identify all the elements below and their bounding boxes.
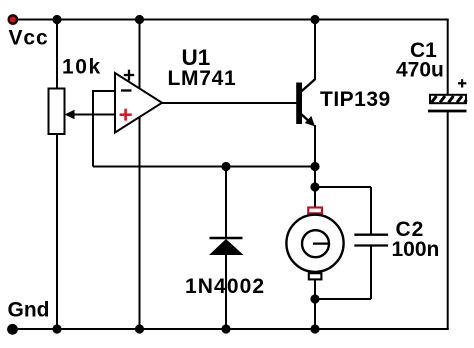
junction dot emitter feedback node [310, 162, 319, 171]
wire bottom rail Gnd [13, 328, 449, 330]
op-amp inverting input minus marker [121, 89, 132, 91]
junction dot bottom rail pot [52, 324, 61, 333]
transistor emitter diagonal with arrow [300, 113, 315, 126]
wire op-amp output to base [162, 102, 297, 104]
motor M1 body outer circle [286, 215, 343, 272]
wire top rail Vcc [13, 19, 449, 21]
potentiometer wiper arrow [65, 110, 116, 119]
capacitor C2 bottom plate [354, 244, 388, 246]
transistor collector diagonal [300, 80, 315, 93]
junction dot C2 top node [310, 182, 319, 191]
wire op-amp V+ supply leg [139, 20, 141, 90]
motor M1 inner circle [302, 230, 329, 257]
svg-text:470u: 470u [396, 59, 444, 82]
wire C2 lower vertical [370, 246, 372, 299]
junction dot top rail pot [52, 15, 61, 24]
op-amp V+ plus marker [124, 70, 134, 81]
capacitor C1 polarity plus [458, 79, 466, 87]
wire right edge lower (C1 to bottom rail) [447, 111, 449, 329]
op-amp non-inverting input red plus marker [120, 109, 132, 121]
capacitor C1 hatched positive plate [430, 95, 467, 103]
wire feedback vertical [92, 90, 94, 167]
motor M1 top terminal (red) [308, 208, 322, 214]
node Vcc terminal (red dot) [9, 15, 17, 23]
svg-text:Vcc: Vcc [9, 27, 49, 50]
node Gnd terminal (black dot) [7, 324, 18, 335]
wire right edge upper (top rail to C1) [447, 20, 449, 97]
junction dot bottom rail diode [221, 324, 230, 333]
wire feedback horizontal to emitter node [93, 166, 315, 168]
svg-text:TIP139: TIP139 [320, 88, 391, 111]
wire pot top leg [56, 20, 58, 90]
wire C2 upper vertical [370, 187, 372, 234]
capacitor C2 top plate [354, 234, 388, 236]
wire collector vertical [314, 20, 316, 81]
resistor 10k potentiometer body [49, 89, 65, 135]
wire emitter vertical to motor [314, 125, 316, 208]
wire inverting input stub [93, 90, 115, 92]
transistor Q1 base bar [296, 83, 302, 125]
junction dot top rail collector [310, 15, 319, 24]
wire pot bottom leg [56, 134, 58, 329]
capacitor C1 negative plate [428, 110, 467, 113]
svg-text:1N4002: 1N4002 [185, 275, 265, 298]
op-amp U1 triangle [115, 73, 162, 133]
diode D1 cathode bar [210, 237, 243, 240]
junction dot bottom rail motor [310, 324, 319, 333]
motor M1 inner bar [313, 243, 330, 245]
wire C2 top branch [315, 186, 371, 188]
wire diode bottom leg [225, 254, 227, 329]
svg-text:100n: 100n [392, 238, 440, 261]
junction dot diode feedback node [221, 162, 230, 171]
junction dot bottom rail op-amp [135, 324, 144, 333]
junction dot top rail op-amp [135, 15, 144, 24]
motor M1 bottom terminal [309, 273, 322, 279]
svg-text:10k: 10k [62, 56, 102, 79]
wire C2 bottom branch [315, 298, 371, 300]
diode D1 anode triangle [209, 239, 244, 255]
svg-text:LM741: LM741 [168, 67, 237, 90]
wire diode top leg [225, 167, 227, 239]
wire motor bottom leg [314, 279, 316, 329]
svg-text:Gnd: Gnd [8, 299, 50, 322]
junction dot C2 bottom node [310, 294, 319, 303]
wire op-amp V- supply leg [139, 118, 141, 330]
